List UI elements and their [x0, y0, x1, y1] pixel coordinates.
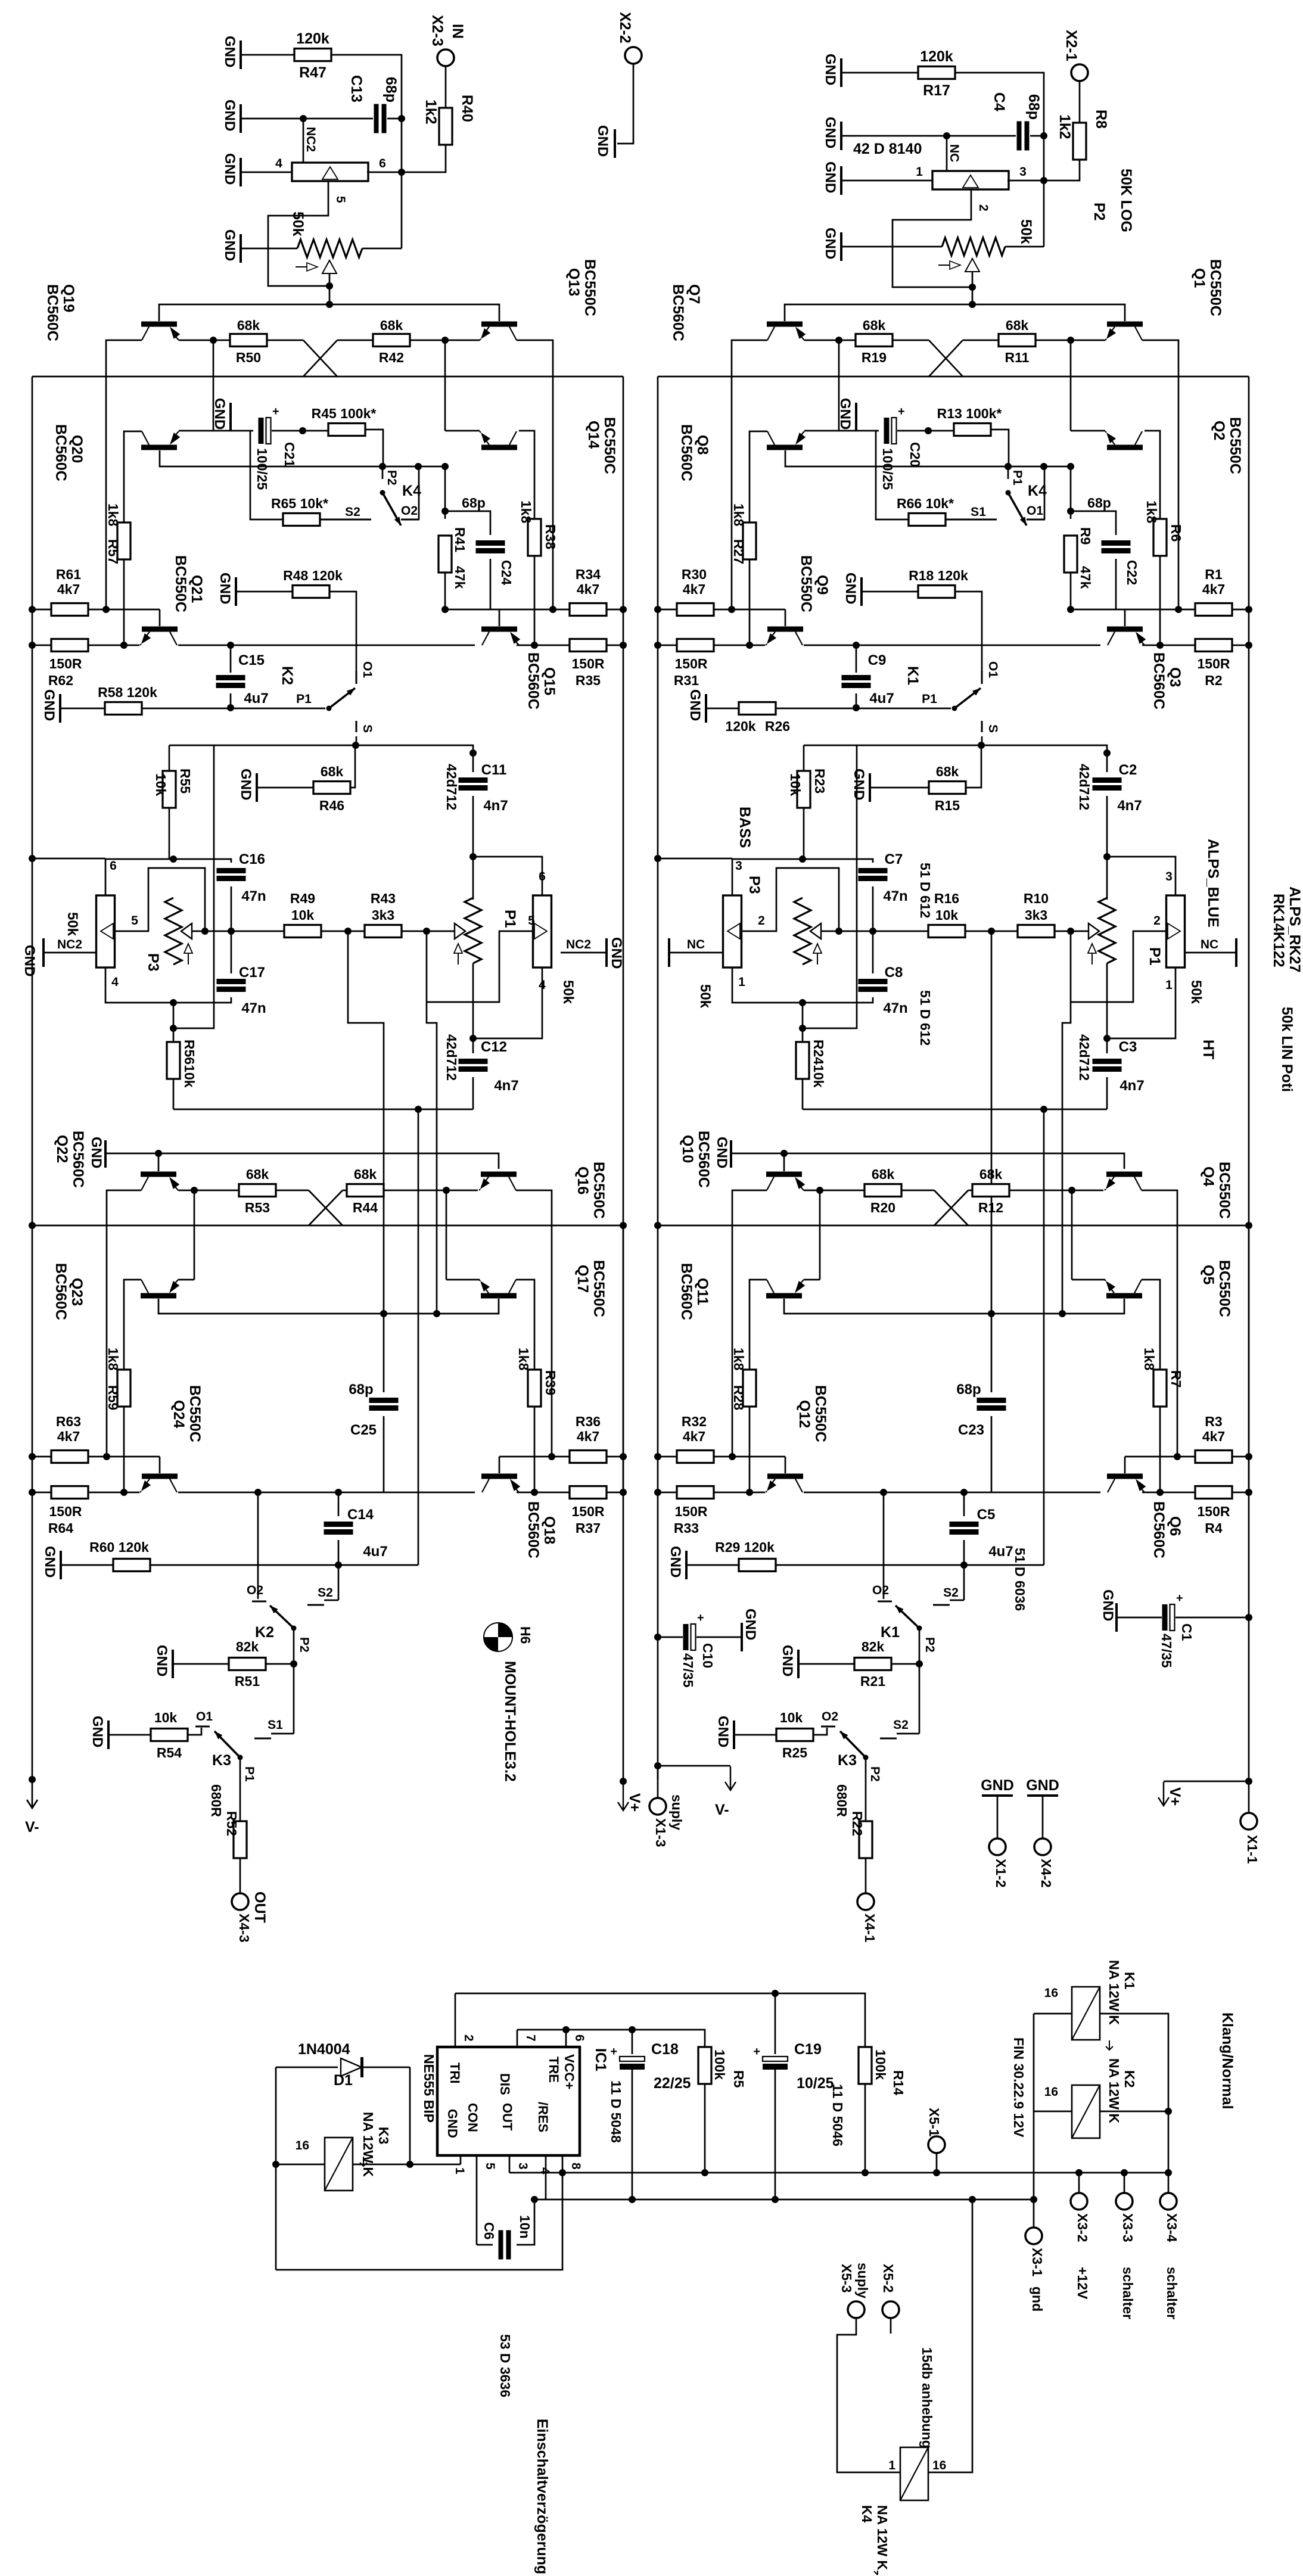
pot P2 element zigzag: [942, 238, 1005, 256]
svg-text:R22: R22: [850, 1811, 865, 1836]
pot P3 body: [97, 895, 115, 967]
svg-text:P2: P2: [923, 1637, 937, 1653]
svg-text:P1: P1: [1146, 947, 1163, 966]
svg-text:X2-3: X2-3: [429, 15, 446, 46]
svg-text:NC: NC: [1201, 938, 1218, 951]
svg-text:Q2: Q2: [1211, 421, 1227, 440]
svg-text:68k: 68k: [863, 318, 886, 333]
wire S-column to lower block: [173, 745, 214, 1028]
resistor R34 4k7: [570, 603, 607, 616]
svg-text:P2: P2: [1091, 203, 1108, 221]
svg-text:10k: 10k: [154, 1710, 178, 1725]
svg-text:P1: P1: [296, 692, 312, 706]
svg-text:2: 2: [462, 2034, 475, 2042]
node C20-R13: [299, 427, 306, 434]
resistor R13 100k*: [928, 430, 954, 432]
svg-text:MOUNT-HOLE3.2: MOUNT-HOLE3.2: [502, 1661, 518, 1782]
svg-text:2: 2: [758, 914, 765, 928]
svg-text:Q24: Q24: [170, 1400, 187, 1428]
pot P3 wiper wire: [192, 931, 205, 932]
capacitor C17 47n: [231, 931, 232, 973]
svg-text:NE555 BIP: NE555 BIP: [421, 2054, 437, 2123]
svg-text:Q18: Q18: [541, 1516, 558, 1544]
svg-text:NA 12W K: NA 12W K: [1106, 1960, 1122, 2025]
transistor Q4: [1106, 1172, 1142, 1177]
svg-text:+: +: [898, 405, 905, 418]
svg-text:C9: C9: [868, 652, 887, 668]
svg-text:R51: R51: [235, 1673, 260, 1689]
svg-text:NA 12W K: NA 12W K: [360, 2112, 376, 2177]
transistor Q13: [481, 322, 517, 327]
svg-text:4k7: 4k7: [683, 1429, 705, 1444]
svg-text:R54: R54: [157, 1745, 182, 1760]
svg-text:/RES: /RES: [536, 2102, 551, 2132]
svg-text:NC2: NC2: [304, 127, 318, 152]
svg-text:1k8: 1k8: [731, 1348, 747, 1371]
svg-text:BC550C: BC550C: [590, 1162, 607, 1219]
wire emitter column Q10-Q11: [819, 1190, 821, 1280]
svg-text:50k: 50k: [1018, 219, 1034, 244]
svg-text:4k7: 4k7: [577, 1429, 599, 1444]
wire right outer rail: [623, 377, 624, 1617]
transistor Q19: [141, 322, 177, 327]
capacitor C10 47/35: [654, 1634, 661, 1641]
svg-text:42d712: 42d712: [1077, 764, 1092, 810]
wire emitter column Q7-Q8: [838, 340, 840, 431]
svg-text:R52: R52: [224, 1811, 240, 1836]
svg-text:GND: GND: [837, 398, 853, 430]
switch K2 S-contact: [324, 1600, 338, 1601]
ground X2-2: [614, 129, 616, 158]
wire collector row Q24-Q18: [178, 1492, 475, 1494]
svg-text:NC: NC: [947, 144, 961, 162]
svg-text:5: 5: [334, 196, 347, 203]
resistor R43 3k3: [365, 925, 402, 938]
wire emitter Q8 to gnd/cap: [804, 430, 879, 432]
svg-text:GND: GND: [667, 1546, 683, 1578]
wire collector row y573: [106, 340, 142, 609]
svg-text:6: 6: [573, 2034, 586, 2042]
svg-text:51 D 6036: 51 D 6036: [1012, 1548, 1028, 1611]
svg-text:22/25: 22/25: [654, 2075, 691, 2092]
resistor R37 150R: [517, 1492, 570, 1494]
wire collector Q14 to R6 column: [519, 431, 534, 500]
relay K2: [1072, 2085, 1100, 2138]
svg-text:GND: GND: [154, 1645, 170, 1676]
resistor R54 10k: [107, 1721, 110, 1749]
svg-text:10n: 10n: [517, 2215, 533, 2239]
wire base rail Q22/Q16: [107, 1153, 499, 1169]
wire emitter Q14: [445, 430, 480, 432]
svg-text:BC550C: BC550C: [590, 1260, 607, 1317]
svg-text:150R: 150R: [572, 656, 605, 671]
pot P2 wiper arrow: [322, 260, 337, 273]
svg-text:BC550C: BC550C: [186, 1385, 203, 1442]
IC1 pin 4: [545, 2155, 547, 2199]
transistor Q11: [766, 1293, 802, 1299]
svg-text:53 D 3636: 53 D 3636: [497, 2334, 513, 2397]
transistor Q18: [481, 1474, 517, 1479]
svg-text:5: 5: [483, 2163, 497, 2170]
svg-text:GND: GND: [238, 769, 254, 800]
resistor R21 82k: [797, 1650, 800, 1678]
svg-text:GND: GND: [687, 689, 703, 721]
svg-text:4k7: 4k7: [683, 581, 705, 597]
svg-text:ALPS_BLUE: ALPS_BLUE: [1205, 839, 1221, 928]
capacitor C1 47/35: [1115, 1603, 1118, 1632]
svg-text:GND: GND: [222, 153, 238, 185]
wire rail 3692: [534, 2199, 1034, 2201]
resistor R25 10k: [733, 1721, 735, 1749]
svg-text:R32: R32: [682, 1414, 707, 1429]
pot P3 pin2 loop: [116, 868, 205, 931]
svg-text:Q14: Q14: [585, 421, 602, 449]
svg-text:GND: GND: [222, 99, 238, 131]
resistor R23 10k: [803, 745, 805, 771]
svg-text:4u7: 4u7: [244, 690, 268, 707]
svg-text:3k3: 3k3: [372, 907, 394, 923]
svg-text:100/25: 100/25: [254, 448, 270, 490]
resistor R22 680R: [865, 1757, 867, 1821]
pot P3 NC pin + gnd: [43, 952, 96, 954]
pot P1 NC pin + gnd: [561, 952, 607, 954]
capacitor C20 100/25: [884, 418, 890, 444]
switch K4 O-contact: [401, 519, 419, 521]
connector X4-1: [857, 1893, 874, 1910]
ground input 3: [840, 166, 842, 195]
svg-text:1: 1: [916, 165, 923, 179]
pot P2 body: [932, 171, 1009, 189]
svg-text:150R: 150R: [675, 1504, 708, 1519]
wire collector Q1 to column: [1142, 340, 1178, 609]
svg-text:Q4: Q4: [1200, 1166, 1217, 1186]
svg-text:O1: O1: [196, 1710, 213, 1723]
svg-text:GND: GND: [222, 229, 238, 261]
resistor R32 4k7 row: [658, 1456, 677, 1458]
resistor R58 120k row: [59, 694, 61, 723]
svg-text:GND: GND: [981, 1777, 1014, 1794]
wire X5-3 to relay K4: [837, 2318, 900, 2472]
svg-text:X1-2: X1-2: [993, 1859, 1009, 1888]
svg-text:BC560C: BC560C: [70, 1131, 86, 1188]
wire right outer rail: [1248, 377, 1250, 1617]
pot P1 wiper wire: [427, 931, 455, 932]
svg-text:47k: 47k: [1078, 566, 1093, 589]
capacitor C13 68p: [303, 118, 373, 120]
svg-text:K1: K1: [1122, 1972, 1137, 1990]
svg-text:S: S: [986, 724, 1000, 733]
svg-text:10k: 10k: [153, 773, 169, 797]
svg-text:Q9: Q9: [814, 575, 831, 595]
node emitter Q10: [816, 1187, 823, 1194]
svg-text:BC560C: BC560C: [678, 424, 695, 481]
svg-text:R27: R27: [731, 539, 747, 564]
connector X2-1: [1071, 64, 1088, 81]
connector X3-3: [1121, 2169, 1128, 2176]
svg-text:C12: C12: [481, 1039, 507, 1055]
connector X4-2: [1034, 1838, 1051, 1855]
svg-text:R46: R46: [319, 798, 344, 813]
resistor R28 1k8: [743, 1370, 756, 1407]
ground input 1: [840, 58, 842, 87]
svg-text:R19: R19: [862, 350, 887, 365]
svg-text:11 D 5048: 11 D 5048: [608, 2080, 624, 2143]
svg-text:V-: V-: [715, 1802, 729, 1818]
capacitor C4 68p: [947, 135, 1016, 137]
svg-text:4k7: 4k7: [57, 1429, 80, 1444]
pot P1 pin bottom: [1107, 967, 1176, 1038]
switch K1 S-contact: [981, 721, 983, 732]
wire wiper down to rail: [972, 272, 974, 304]
svg-text:BC550C: BC550C: [581, 259, 598, 316]
wire crossover X: [303, 340, 337, 377]
svg-text:R31: R31: [674, 673, 699, 688]
svg-text:S1: S1: [971, 505, 986, 519]
svg-text:suply: suply: [669, 1794, 685, 1830]
svg-text:R49: R49: [290, 891, 315, 906]
resistor R7 1k8: [1153, 1370, 1167, 1407]
transistor Q22: [141, 1172, 176, 1177]
svg-text:R2: R2: [1205, 673, 1222, 688]
svg-text:suply: suply: [855, 2263, 870, 2298]
svg-text:R9: R9: [1078, 527, 1093, 545]
wire R3 row: [499, 1456, 552, 1458]
svg-text:ALPS_RK27: ALPS_RK27: [1286, 886, 1303, 973]
svg-text:R8: R8: [1093, 110, 1109, 129]
svg-text:K4: K4: [859, 2505, 875, 2523]
svg-text:16: 16: [1044, 1986, 1058, 2000]
svg-text:Q17: Q17: [574, 1265, 591, 1293]
svg-text:V+: V+: [626, 1793, 643, 1812]
svg-text:R12: R12: [978, 1200, 1003, 1215]
resistor R14 100k: [859, 2047, 872, 2084]
svg-text:C17: C17: [239, 965, 265, 981]
connector X4-3: [232, 1893, 248, 1910]
IC NE555 IC1 body: [437, 2047, 580, 2155]
svg-text:GND: GND: [714, 1137, 730, 1168]
resistor R35 150R: [517, 645, 570, 646]
svg-text:GND: GND: [715, 1716, 731, 1747]
resistor R48 120k: [235, 577, 237, 606]
svg-text:Q19: Q19: [60, 284, 77, 312]
wire R1 row: [445, 609, 553, 611]
pot P1 wiper wire: [1071, 931, 1089, 932]
svg-text:42 D 8140: 42 D 8140: [853, 141, 922, 157]
svg-text:X4-3: X4-3: [237, 1914, 252, 1943]
connector X2-3: [437, 49, 454, 66]
node emitter Q19: [210, 337, 217, 344]
capacitor C24 68p: [445, 511, 490, 535]
capacitor C8 47n: [872, 931, 874, 973]
node emitter Q22: [191, 1187, 198, 1194]
resistor R15 68k: [869, 773, 871, 802]
wire rail to pot pin top: [32, 858, 105, 860]
svg-text:IN: IN: [449, 24, 466, 39]
wire emitter column Q19-Q20: [213, 340, 214, 431]
svg-text:GND: GND: [822, 228, 838, 259]
resistor R38 1k8: [534, 500, 536, 519]
wire collector row Q9-Q3: [804, 645, 1100, 646]
svg-text:R3: R3: [1205, 1414, 1222, 1429]
svg-text:5: 5: [528, 914, 535, 928]
transistor Q7: [767, 322, 803, 327]
svg-text:16: 16: [932, 2459, 946, 2472]
svg-text:C15: C15: [238, 652, 265, 668]
wire crossover X: [929, 340, 963, 377]
svg-text:X2-2: X2-2: [617, 12, 633, 43]
svg-text:R2410k: R2410k: [811, 1040, 826, 1088]
resistor R19 68k: [856, 334, 892, 347]
svg-text:BC560C: BC560C: [1150, 652, 1167, 710]
connector X3-2: [1078, 2173, 1080, 2193]
switch K1 lever: [895, 1606, 919, 1628]
resistor R1 4k7: [1195, 603, 1232, 616]
switch K3 lever: [840, 1731, 866, 1757]
switch K4 O-contact: [1027, 519, 1045, 521]
resistor R45 100k*: [303, 430, 328, 432]
wire V+ branch right: [1248, 1617, 1250, 1781]
svg-text:Q6: Q6: [1167, 1516, 1183, 1536]
svg-text:R5610k: R5610k: [182, 1040, 197, 1088]
svg-text:schalter: schalter: [1120, 2267, 1136, 2319]
pot P3 element zigzag: [794, 898, 811, 965]
svg-text:BC560C: BC560C: [52, 424, 69, 481]
transistor Q3: [1107, 627, 1143, 632]
svg-text:NC2: NC2: [566, 938, 591, 951]
svg-text:1: 1: [453, 2167, 467, 2174]
svg-text:R10: R10: [1024, 891, 1049, 906]
svg-text:C16: C16: [239, 851, 265, 867]
svg-text:68k: 68k: [1006, 318, 1029, 333]
transistor Q12: [767, 1474, 803, 1479]
svg-text:4n7: 4n7: [483, 798, 508, 814]
transistor Q10: [766, 1172, 802, 1177]
svg-text:68k: 68k: [321, 764, 344, 779]
svg-text:R1: R1: [1205, 567, 1223, 582]
svg-text:Q21: Q21: [188, 575, 205, 603]
svg-text:X3-4: X3-4: [1164, 2213, 1180, 2242]
resistor R50 68k: [230, 334, 267, 347]
svg-text:BC550C: BC550C: [1216, 1162, 1233, 1219]
connector X1-1: [1248, 1781, 1250, 1813]
svg-text:Q1: Q1: [1191, 268, 1208, 288]
svg-text:D1: D1: [334, 2072, 353, 2089]
resistor R47 120k: [294, 49, 331, 61]
svg-text:1k8: 1k8: [518, 500, 534, 524]
resistor R6 1k8: [1159, 500, 1161, 519]
svg-text:R5: R5: [731, 2070, 747, 2088]
svg-text:K1: K1: [904, 666, 921, 685]
svg-text:5: 5: [131, 914, 138, 928]
svg-text:NA 12W K: NA 12W K: [875, 2505, 890, 2570]
wire V- rail end left channel: [29, 1776, 36, 1783]
svg-text:1k8: 1k8: [105, 503, 121, 527]
transistor Q14: [481, 445, 517, 450]
svg-text:GND: GND: [222, 36, 238, 67]
svg-text:R39: R39: [543, 1370, 558, 1395]
svg-text:1N4004: 1N4004: [298, 2041, 350, 2058]
pot P2 wiper arrow: [965, 259, 979, 272]
transistor Q16: [481, 1172, 517, 1177]
svg-text:O1: O1: [986, 661, 1000, 678]
svg-text:50K LOG: 50K LOG: [1118, 169, 1134, 232]
pot P1 pin top: [473, 857, 542, 895]
svg-text:R20: R20: [870, 1200, 895, 1215]
svg-text:2: 2: [1153, 914, 1161, 928]
node K4 P-contact: [379, 463, 386, 470]
svg-text:P1: P1: [242, 1766, 256, 1782]
resistor R49 10k: [231, 931, 284, 932]
svg-text:CON: CON: [465, 2103, 480, 2132]
wire K4 right: [928, 2199, 972, 2472]
ground Q22 base: [104, 1140, 107, 1168]
svg-text:C21: C21: [282, 442, 297, 467]
wire collector Q11: [750, 1280, 767, 1370]
svg-text:Q8: Q8: [694, 435, 711, 455]
switch K2 lever: [270, 1606, 294, 1628]
svg-text:68k: 68k: [237, 318, 260, 333]
wire collector Q10: [732, 1190, 767, 1457]
wire emitter Q20 to gnd/cap: [179, 430, 253, 432]
svg-text:GND: GND: [779, 1645, 795, 1676]
wire bottom loop: [276, 2173, 562, 2270]
svg-text:GND: GND: [842, 573, 859, 604]
resistor R42 68k: [373, 334, 410, 347]
svg-text:GND: GND: [217, 573, 233, 604]
svg-text:NC2: NC2: [57, 938, 82, 951]
wire D1 right column: [409, 2067, 411, 2164]
wire emitter column Q22-Q23: [194, 1190, 195, 1280]
svg-text:GND: GND: [1100, 1589, 1116, 1621]
IC1 pin 5: [476, 2155, 478, 2245]
svg-text:C14: C14: [347, 1507, 374, 1523]
wire collector Q5: [1142, 1280, 1160, 1370]
svg-text:+: +: [1176, 1592, 1183, 1605]
svg-text:X1-1: X1-1: [1245, 1835, 1260, 1864]
transistor Q1: [1107, 322, 1143, 327]
svg-text:R35: R35: [576, 673, 601, 688]
pot P3 NC pin + gnd: [670, 952, 723, 954]
svg-text:BC550C: BC550C: [1216, 1260, 1233, 1317]
svg-text:O2: O2: [247, 1583, 263, 1597]
svg-text:82k: 82k: [236, 1639, 259, 1654]
svg-text:C22: C22: [1124, 560, 1140, 585]
svg-text:R57: R57: [105, 539, 121, 564]
switch K4 lever: [382, 493, 401, 525]
svg-text:C23: C23: [958, 1422, 984, 1438]
svg-text:C7: C7: [885, 851, 903, 867]
svg-text:S2: S2: [893, 1718, 909, 1732]
svg-text:VCC+: VCC+: [562, 2054, 577, 2089]
svg-text:BC560C: BC560C: [525, 1501, 542, 1558]
wire base row Q11-Q5: [784, 1299, 1124, 1314]
svg-text:R30: R30: [682, 567, 707, 582]
svg-text:68p: 68p: [1025, 94, 1042, 120]
capacitor C5 4u7: [963, 1492, 965, 1516]
ground C10: [741, 1623, 743, 1651]
svg-text:4k7: 4k7: [1202, 1429, 1225, 1444]
svg-text:BC550C: BC550C: [172, 555, 189, 612]
pot P3 pin bottom: [105, 967, 173, 1003]
svg-text:C8: C8: [885, 965, 903, 981]
svg-text:150R: 150R: [675, 656, 708, 671]
svg-text:16: 16: [1044, 2085, 1058, 2099]
svg-text:15db anhebung: 15db anhebung: [919, 2347, 935, 2449]
pot P3 body: [723, 895, 742, 967]
svg-text:R18 120k: R18 120k: [909, 568, 968, 583]
svg-text:4u7: 4u7: [363, 1544, 387, 1560]
svg-text:47k: 47k: [452, 566, 468, 589]
